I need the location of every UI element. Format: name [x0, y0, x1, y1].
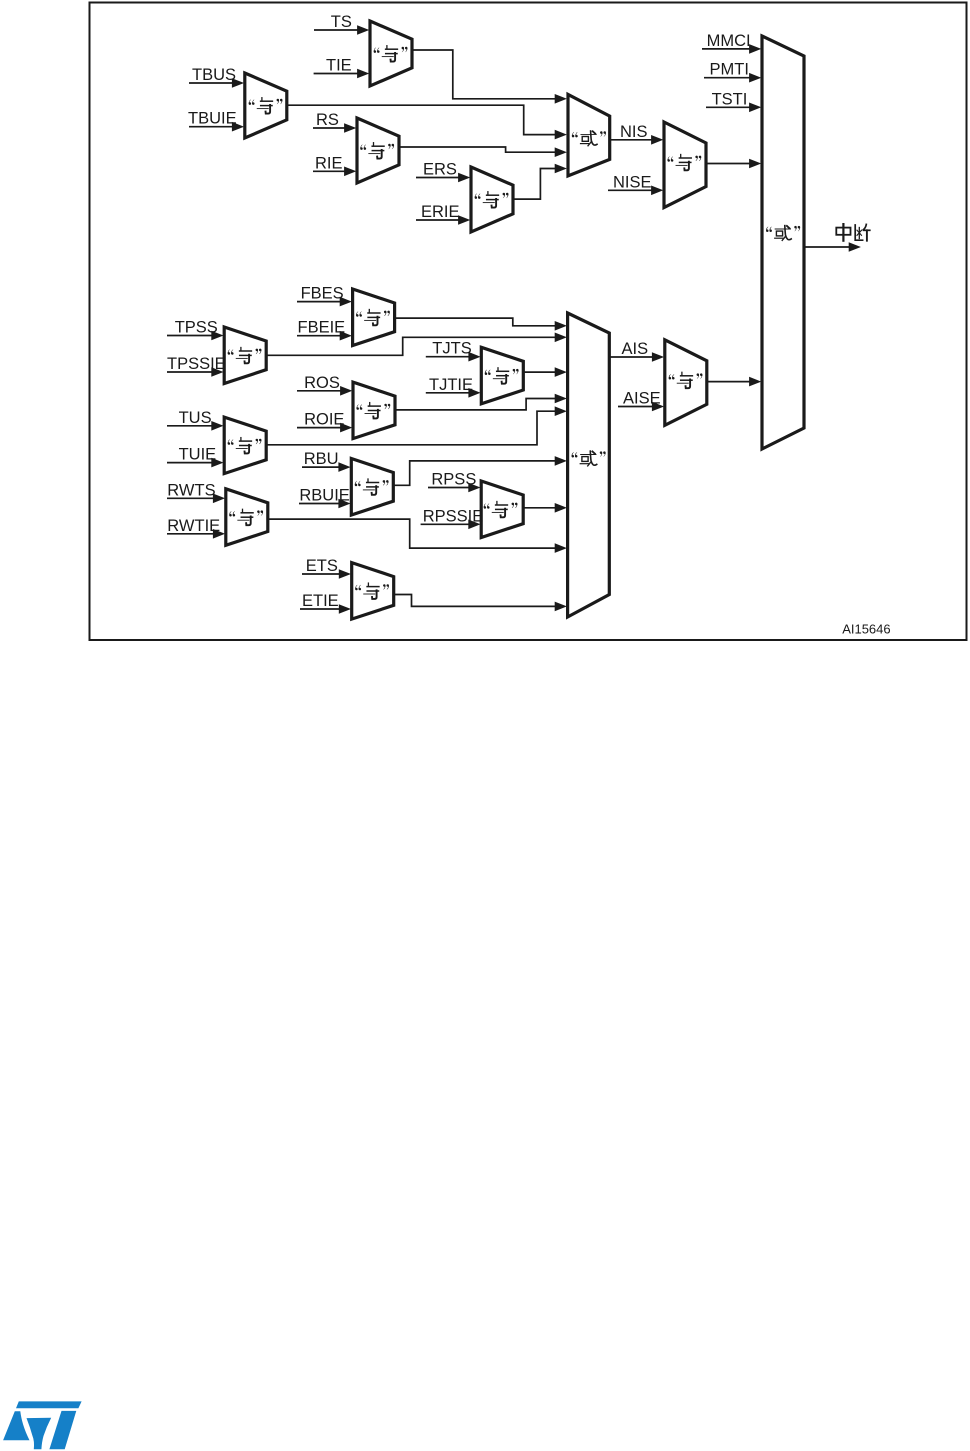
svg-text:AI15646: AI15646: [842, 622, 890, 637]
svg-text:TIE: TIE: [326, 57, 352, 75]
OR gate (final, right tall): [762, 36, 804, 449]
wire NISE input: [608, 186, 663, 196]
AND gate AIS/AISE: [665, 340, 707, 426]
wire TPSS-gate output to OR: [267, 333, 567, 356]
svg-text:FBEIE: FBEIE: [298, 319, 346, 337]
wire RWTIE input: [167, 529, 225, 539]
svg-text:ETIE: ETIE: [302, 592, 339, 610]
wire RPSSIE input: [421, 520, 481, 530]
wire ETS input: [302, 569, 351, 579]
AND gate RWTS/RWTIE: [226, 489, 268, 546]
wire PMTI input: [704, 73, 761, 83]
wire TJTS input: [426, 352, 481, 362]
svg-text:AIS: AIS: [622, 340, 649, 358]
wire TSTI input: [706, 103, 761, 113]
wire MMCI input: [702, 44, 761, 54]
AND gate ERS/ERIE: [471, 167, 513, 232]
svg-text:TPSS: TPSS: [175, 319, 218, 337]
wire ROS input: [297, 386, 352, 396]
wire AIS (OR output to AIS gate): [609, 352, 664, 362]
wire ROIE input: [297, 423, 352, 433]
wire AIS-gate output to big OR: [707, 377, 761, 387]
wire FBES input: [297, 297, 352, 307]
svg-text:ERS: ERS: [423, 161, 457, 179]
AND gate TUS/TUIE: [224, 417, 266, 474]
wire TJTIE input: [426, 388, 481, 398]
svg-text:AISE: AISE: [623, 390, 661, 408]
AND gate TS/TIE: [370, 21, 412, 86]
diagram border frame: [90, 3, 967, 641]
wire interrupt output: [804, 242, 861, 252]
AND gate TPSS/TPSSIE: [224, 327, 266, 384]
svg-text:RIE: RIE: [315, 154, 343, 172]
svg-text:TBUS: TBUS: [192, 66, 236, 84]
svg-text:RWTIE: RWTIE: [167, 517, 220, 535]
AND gate ROS/ROIE: [353, 382, 395, 439]
svg-text:PMTI: PMTI: [710, 61, 749, 79]
wire ERS input: [416, 173, 470, 183]
svg-text:RPSSIE: RPSSIE: [423, 507, 484, 525]
svg-text:NISE: NISE: [613, 173, 652, 191]
wire RWTS-gate output to OR: [267, 519, 567, 553]
svg-text:TJTIE: TJTIE: [429, 376, 473, 394]
svg-text:RS: RS: [316, 111, 339, 129]
wire RS-gate output to OR: [399, 147, 567, 157]
svg-text:TS: TS: [331, 13, 352, 31]
wire ROS-gate output to OR: [395, 394, 567, 410]
svg-text:RBUIE: RBUIE: [299, 487, 349, 505]
wire TUS input: [167, 421, 224, 431]
svg-text:RBU: RBU: [304, 450, 339, 468]
label interrupt (Chinese): [836, 224, 870, 241]
wire TPSS input: [167, 331, 224, 341]
wire ERIE input: [416, 215, 470, 225]
wire TPSSIE input: [167, 367, 224, 377]
AND gate NIS/NISE: [664, 122, 706, 208]
wire RPSS input: [428, 483, 481, 493]
wire TJTS-gate output to OR: [524, 367, 567, 377]
OR gate (NIS): [568, 94, 610, 175]
AND gate RS/RIE: [357, 118, 399, 183]
svg-text:ROS: ROS: [304, 374, 340, 392]
wire TS input: [314, 25, 369, 35]
wire NIS (OR output to NIS gate): [610, 135, 664, 145]
wire TBUIE input: [189, 122, 244, 132]
wire NIS-gate output to big OR: [706, 159, 761, 169]
svg-text:TJTS: TJTS: [432, 340, 471, 358]
svg-text:NIS: NIS: [620, 123, 648, 141]
wire TIE input: [314, 69, 370, 79]
svg-text:FBES: FBES: [301, 285, 344, 303]
AND gate TJTS/TJTIE: [481, 347, 523, 404]
AND gate FBES/FBEIE: [353, 289, 395, 346]
wire ERS-gate output to OR: [513, 164, 567, 199]
svg-text:ERIE: ERIE: [421, 203, 460, 221]
svg-text:ROIE: ROIE: [304, 411, 344, 429]
AND gate TBUS/TBUIE: [245, 73, 287, 138]
wire TUS-gate output to OR: [267, 406, 567, 444]
wire RBU input: [302, 462, 351, 472]
wire FBES-gate output to OR: [395, 318, 567, 331]
svg-text:TPSSIE: TPSSIE: [167, 355, 226, 373]
wire RBUIE input: [299, 499, 351, 509]
svg-text:MMCI: MMCI: [707, 32, 751, 50]
wire RWTS input: [167, 494, 225, 504]
svg-text:TBUIE: TBUIE: [188, 110, 237, 128]
AND gate RBU/RBUIE: [351, 459, 393, 516]
wire RS input: [313, 123, 356, 133]
wire RIE input: [313, 167, 356, 177]
ST Microelectronics logo: [3, 1401, 82, 1449]
wire FBEIE input: [297, 331, 352, 341]
wire TS-gate output to OR: [412, 50, 567, 104]
wire AISE input: [618, 402, 664, 412]
svg-text:RWTS: RWTS: [167, 481, 215, 499]
svg-text:TUIE: TUIE: [179, 446, 217, 464]
wire RBU-gate output to OR: [394, 456, 567, 485]
AND gate RPSS/RPSSIE: [481, 481, 523, 538]
AND gate ETS/ETIE: [352, 563, 394, 620]
wire TUIE input: [167, 458, 224, 468]
OR gate (AIS, lower big): [568, 313, 610, 617]
svg-text:RPSS: RPSS: [431, 471, 476, 489]
svg-text:TUS: TUS: [179, 409, 212, 427]
wire ETS-gate output to OR: [394, 595, 567, 612]
svg-text:ETS: ETS: [306, 557, 338, 575]
wire TBUS input: [189, 78, 244, 88]
svg-text:TSTI: TSTI: [712, 90, 748, 108]
wire RPSS-gate output to OR: [523, 503, 567, 513]
wire TBUS-gate output to OR: [287, 105, 567, 139]
wire ETIE input: [300, 604, 351, 614]
